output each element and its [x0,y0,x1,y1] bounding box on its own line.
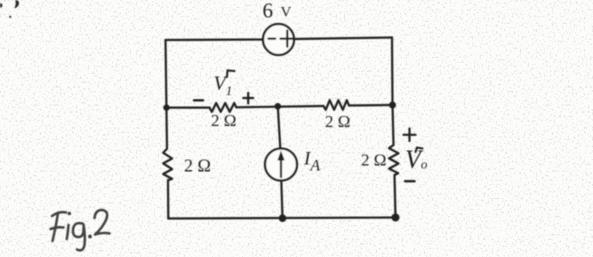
junction dot: bottom wire center [279,214,287,222]
junction dot: bottom wire right corner [392,214,400,222]
svg-text:2 Ω: 2 Ω [211,111,236,130]
wire: left vertical lower segment [167,180,170,218]
wire: middle horizontal left part [167,106,210,108]
svg-text:2 Ω: 2 Ω [361,151,386,170]
wire: bottom horizontal [168,218,395,219]
svg-text:2 Ω: 2 Ω [184,156,211,176]
junction dot: middle wire right [389,102,396,109]
label Fig.2 (handwritten caption) [51,210,110,250]
wire: right vertical upper segment [392,38,394,146]
label V1 with polarity marks across R2 [194,71,253,104]
wire: top-left horizontal segment [166,38,264,41]
wire: middle horizontal right part [349,104,393,107]
resistor R1 2 ohm (left branch zigzag) [163,149,172,181]
wire: right vertical lower segment [395,175,396,218]
wire: middle horizontal center part [236,106,323,107]
current source IA (circle with up arrow) [265,149,297,181]
wire: middle branch upper segment [278,106,281,148]
wire: left vertical upper segment [166,40,168,149]
wire: middle branch lower segment [281,181,282,219]
junction dot: middle wire left [163,104,169,110]
junction dot: middle wire center [275,103,282,110]
resistor R2 2 ohm (middle-left zigzag) [210,103,237,112]
voltage source U1 6V (circle with - +) [263,24,294,55]
label Vo with polarity marks across R4 [404,129,428,182]
svg-text:2 Ω: 2 Ω [325,112,350,131]
resistor R3 2 ohm (middle-right zigzag) [324,100,350,110]
wire: top-right horizontal segment [294,38,392,40]
resistor R4 2 ohm (right branch zigzag) [389,145,399,175]
